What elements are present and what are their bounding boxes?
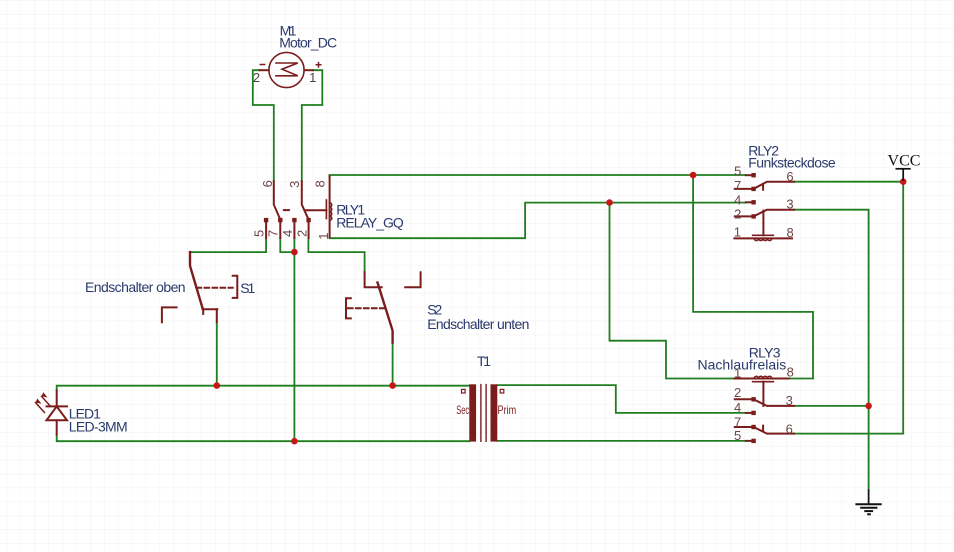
svg-text:6: 6: [260, 180, 275, 187]
svg-text:6: 6: [786, 169, 793, 184]
svg-text:1: 1: [309, 70, 316, 85]
svg-text:5: 5: [734, 428, 741, 443]
svg-text:2: 2: [734, 385, 741, 400]
svg-text:RELAY_GQ: RELAY_GQ: [336, 215, 404, 231]
svg-text:5: 5: [734, 164, 741, 179]
svg-text:1: 1: [734, 365, 741, 380]
svg-text:7: 7: [266, 230, 281, 237]
svg-text:T1: T1: [477, 353, 491, 369]
svg-text:VCC: VCC: [888, 153, 921, 170]
svg-text:3: 3: [287, 181, 302, 188]
svg-text:2: 2: [294, 230, 309, 237]
svg-text:2: 2: [734, 206, 741, 221]
svg-text:Prim: Prim: [498, 403, 517, 417]
svg-text:Sec: Sec: [456, 403, 469, 417]
svg-text:6: 6: [786, 421, 793, 436]
svg-text:3: 3: [786, 393, 793, 408]
svg-text:1: 1: [734, 225, 741, 240]
svg-text:Endschalter oben: Endschalter oben: [85, 279, 186, 295]
svg-text:4: 4: [734, 192, 741, 207]
svg-text:4: 4: [280, 230, 295, 237]
svg-text:Funksteckdose: Funksteckdose: [748, 154, 836, 170]
svg-text:1: 1: [316, 233, 331, 240]
svg-text:8: 8: [786, 225, 793, 240]
svg-text:4: 4: [734, 400, 741, 415]
svg-text:2: 2: [253, 70, 260, 85]
svg-text:5: 5: [251, 230, 266, 237]
svg-text:8: 8: [787, 365, 794, 380]
svg-text:3: 3: [786, 197, 793, 212]
svg-text:S1: S1: [240, 280, 255, 296]
svg-text:Nachlaufrelais: Nachlaufrelais: [698, 357, 787, 373]
svg-text:7: 7: [734, 178, 741, 193]
svg-text:Endschalter unten: Endschalter unten: [427, 316, 529, 332]
svg-text:8: 8: [312, 180, 327, 187]
svg-text:LED-3MM: LED-3MM: [69, 419, 128, 435]
svg-text:Motor_DC: Motor_DC: [279, 35, 337, 51]
